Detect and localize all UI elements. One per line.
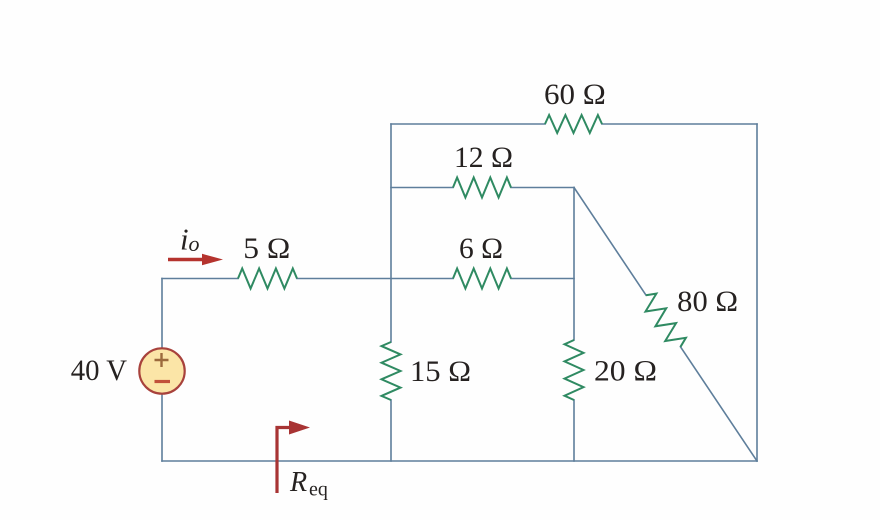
wire top rail left of 60-ohm [391, 123, 545, 125]
wire left branch upper (node to source) [161, 279, 163, 349]
svg-text:i: i [180, 222, 189, 257]
wire middle vertical upper x=574 [573, 188, 575, 341]
wire right vertical x=757 [756, 124, 758, 461]
svg-text:5 Ω: 5 Ω [243, 232, 290, 265]
wire 5-ohm to 6-ohm lead through node x=391 [297, 278, 453, 280]
voltage source minus sign [155, 380, 171, 383]
resistor 6-ohm zigzag [453, 269, 511, 289]
svg-text:o: o [189, 231, 200, 256]
svg-text:60 Ω: 60 Ω [544, 78, 606, 111]
svg-text:40 V: 40 V [71, 354, 128, 387]
wire 6-ohm right lead [511, 278, 574, 280]
wire 12-ohm left lead [391, 187, 453, 189]
wire bottom rail [162, 460, 757, 462]
svg-text:eq: eq [309, 479, 328, 501]
wire 5-ohm row left lead [162, 278, 238, 280]
svg-text:R: R [289, 467, 307, 498]
resistor 60-ohm zigzag [545, 115, 602, 133]
wire top rail right of 60-ohm [602, 123, 757, 125]
voltage source plus sign [155, 353, 169, 367]
wire 12-ohm right lead [511, 187, 574, 189]
wire diagonal upper lead [574, 188, 646, 296]
svg-text:12 Ω: 12 Ω [454, 141, 513, 174]
resistor 15-ohm zigzag [382, 342, 401, 400]
wire left-middle vertical lower x=391 [390, 400, 392, 461]
wire left-middle vertical upper x=391 [390, 124, 392, 342]
svg-text:20 Ω: 20 Ω [594, 355, 657, 388]
wire diagonal lower lead [681, 347, 758, 461]
resistor 12-ohm zigzag [453, 178, 511, 198]
resistor 20-ohm zigzag [565, 340, 584, 400]
resistor 5-ohm zigzag [238, 269, 297, 289]
wire middle vertical lower x=574 [573, 400, 575, 461]
Req arrow [277, 428, 291, 494]
svg-text:15 Ω: 15 Ω [410, 355, 471, 388]
resistor 80-ohm diagonal zigzag [646, 294, 686, 347]
current arrow i_o [168, 258, 204, 261]
voltage source 40V circle [139, 348, 184, 393]
svg-text:6 Ω: 6 Ω [459, 232, 503, 265]
wire left branch lower (source to bottom rail) [161, 394, 163, 462]
svg-text:80 Ω: 80 Ω [677, 285, 738, 318]
